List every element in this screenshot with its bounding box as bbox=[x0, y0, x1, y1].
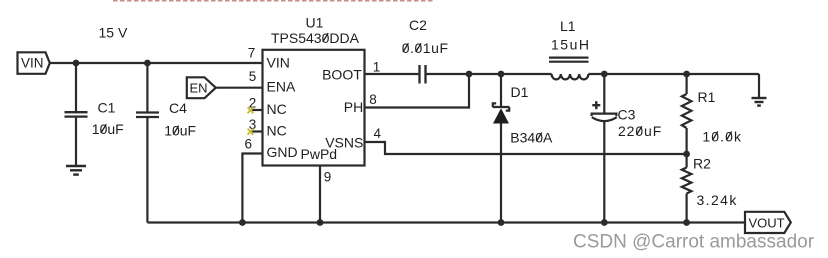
ground (below C1) bbox=[66, 166, 86, 175]
port EN bbox=[187, 77, 216, 98]
capacitor C4 bbox=[136, 63, 187, 223]
svg-text:NC: NC bbox=[267, 123, 287, 139]
value label 0.01uF bbox=[402, 40, 449, 56]
wire C2 to switch node rail bbox=[427, 73, 552, 75]
svg-text:TPS5430DDA: TPS5430DDA bbox=[271, 30, 360, 46]
svg-text:C3: C3 bbox=[618, 107, 636, 123]
svg-text:VSNS: VSNS bbox=[325, 135, 363, 151]
svg-text:15uH: 15uH bbox=[551, 36, 590, 52]
svg-text:10.0k: 10.0k bbox=[702, 128, 742, 144]
svg-text:0.01uF: 0.01uF bbox=[402, 40, 449, 56]
value label B340A bbox=[510, 129, 553, 145]
junction C2/PH node bbox=[466, 71, 473, 78]
junction D1 at bottom rail bbox=[498, 219, 505, 226]
wire U1 BOOT pin 1 to C2 bbox=[365, 73, 419, 75]
svg-text:B340A: B340A bbox=[510, 129, 553, 145]
svg-text:9: 9 bbox=[324, 169, 332, 184]
junction at C4 tap bbox=[144, 60, 151, 67]
svg-text:L1: L1 bbox=[560, 18, 576, 34]
svg-text:PH: PH bbox=[344, 99, 363, 115]
svg-text:220uF: 220uF bbox=[618, 123, 662, 139]
svg-text:VIN: VIN bbox=[267, 54, 290, 70]
svg-text:VIN: VIN bbox=[21, 56, 44, 71]
wire U1 VSNS pin 4 to divider node bbox=[365, 142, 687, 154]
value label 10uF (C4) bbox=[164, 123, 196, 139]
junction D1 tap bbox=[498, 71, 505, 78]
no-connect X on pin 3 bbox=[248, 129, 254, 135]
wire U1 PH pin 8 up to switch node bbox=[365, 74, 470, 108]
svg-text:U1: U1 bbox=[306, 15, 324, 31]
svg-text:CSDN @Carrot ambassador: CSDN @Carrot ambassador bbox=[573, 231, 815, 252]
junction R2 at bottom rail bbox=[683, 219, 690, 226]
junction R1 tap bbox=[683, 71, 690, 78]
wire VIN to U1 pin 7 (top rail) bbox=[50, 62, 263, 64]
port VIN bbox=[18, 52, 50, 74]
svg-text:C4: C4 bbox=[169, 100, 187, 116]
junction C3 at bottom rail bbox=[601, 219, 608, 226]
top cropped red dashed annotation line bbox=[113, 0, 434, 2]
junction at C1 tap bbox=[73, 60, 80, 67]
junction divider node (R1/R2/VSNS) bbox=[683, 151, 690, 158]
IC U1 TPS5430DDA body bbox=[263, 15, 365, 166]
svg-text:NC: NC bbox=[267, 101, 287, 117]
resistor R1 bbox=[682, 74, 716, 154]
wire U1 GND pin 6 to bottom rail bbox=[242, 154, 262, 223]
value label 10.0k bbox=[702, 128, 742, 144]
svg-text:10uF: 10uF bbox=[164, 123, 196, 139]
capacitor C2 bbox=[409, 17, 427, 84]
junction PwPd at bottom rail bbox=[317, 219, 324, 226]
diode D1 (Schottky B340A) bbox=[493, 74, 529, 223]
svg-text:R2: R2 bbox=[693, 155, 711, 171]
svg-text:C1: C1 bbox=[98, 100, 116, 116]
bottom ground rail wire bbox=[147, 221, 745, 223]
svg-text:1: 1 bbox=[373, 59, 381, 74]
pin 3 NC stub bbox=[252, 130, 263, 132]
wire U1 PwPd pin 9 to bottom rail bbox=[319, 166, 321, 223]
svg-text:D1: D1 bbox=[511, 84, 529, 100]
svg-text:3.24k: 3.24k bbox=[697, 192, 738, 208]
wire L1 to output rail bbox=[588, 73, 759, 75]
ground (far right) bbox=[752, 74, 767, 106]
svg-text:GND: GND bbox=[267, 144, 298, 160]
svg-text:ENA: ENA bbox=[267, 78, 296, 94]
no-connect X on pin 2 bbox=[248, 107, 254, 113]
svg-text:VOUT: VOUT bbox=[749, 216, 785, 231]
svg-text:6: 6 bbox=[245, 136, 253, 151]
svg-text:BOOT: BOOT bbox=[322, 66, 362, 82]
capacitor C3 (polarized) bbox=[592, 74, 636, 223]
capacitor C1 bbox=[65, 63, 116, 165]
inductor L1 bbox=[549, 18, 589, 79]
resistor R2 bbox=[682, 154, 711, 223]
junction GND at bottom rail bbox=[239, 219, 246, 226]
wire EN to U1 pin 5 bbox=[216, 87, 263, 89]
svg-text:7: 7 bbox=[248, 46, 256, 61]
svg-text:8: 8 bbox=[369, 92, 377, 107]
junction C3 tap bbox=[601, 71, 608, 78]
svg-text:C2: C2 bbox=[409, 17, 427, 33]
svg-text:15 V: 15 V bbox=[99, 25, 128, 41]
svg-text:4: 4 bbox=[374, 126, 382, 141]
value label TPS5430DDA bbox=[271, 30, 360, 46]
svg-text:10uF: 10uF bbox=[92, 121, 124, 137]
svg-text:5: 5 bbox=[249, 69, 257, 84]
port VOUT bbox=[745, 212, 791, 233]
svg-text:EN: EN bbox=[190, 80, 208, 95]
value label 220uF bbox=[618, 123, 662, 139]
pin 2 NC stub bbox=[252, 109, 263, 111]
value label 10uF (C1) bbox=[92, 121, 124, 137]
svg-text:R1: R1 bbox=[698, 89, 716, 105]
